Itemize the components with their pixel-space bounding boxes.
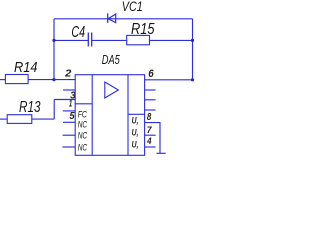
wire NC stub left 1	[63, 121, 75, 123]
resistor R15	[127, 35, 150, 44]
node pin2 junction	[52, 78, 55, 81]
diode VC1	[108, 13, 116, 22]
svg-text:C4: C4	[71, 24, 85, 41]
capacitor C4	[88, 33, 91, 47]
node R15 at right rail	[191, 39, 194, 42]
wire C4 branch left	[54, 39, 88, 41]
wire right rail	[192, 19, 194, 80]
wire top bus	[54, 18, 193, 20]
wire R13 to riser	[32, 118, 54, 120]
wire R15 to right rail	[150, 39, 193, 41]
svg-text:6: 6	[148, 68, 154, 80]
wire NC stub right 2	[145, 99, 156, 101]
svg-text:DA5: DA5	[102, 52, 121, 67]
svg-text:8: 8	[147, 112, 152, 123]
svg-text:VC1: VC1	[122, 0, 143, 14]
wire pin 7 stub	[145, 134, 156, 136]
node pin 6 at right rail	[191, 78, 194, 81]
resistor R13	[7, 115, 32, 124]
svg-text:2: 2	[64, 69, 72, 80]
op-amp triangle symbol	[105, 82, 119, 98]
svg-text:U,: U,	[132, 127, 139, 137]
svg-text:R13: R13	[19, 99, 41, 116]
op-amp U1 DA5 body	[75, 75, 144, 156]
wire to pin 1	[54, 99, 75, 101]
wire NC stub left 3	[62, 146, 75, 148]
node C4 branch at left rail	[52, 39, 55, 42]
wire pin 8	[145, 123, 160, 154]
wire NC stub right 1	[145, 89, 156, 91]
wire left rail	[53, 19, 55, 80]
wire pin 3 stub	[63, 89, 75, 91]
wire pin 6 to right rail	[145, 79, 193, 81]
resistor R14	[5, 75, 28, 84]
wire NC stub right 3	[145, 109, 156, 111]
svg-text:U,: U,	[132, 116, 139, 126]
ground bar	[157, 152, 166, 154]
wire R14 to node	[28, 79, 54, 81]
svg-text:R15: R15	[131, 21, 155, 38]
wire pin 4 stub	[145, 146, 156, 148]
wire input to R14	[0, 79, 5, 81]
wire input to R13	[0, 118, 7, 120]
svg-text:7: 7	[147, 125, 152, 136]
wire node to pin 2	[54, 79, 75, 81]
wire riser to pin 1	[53, 100, 55, 120]
wire NC stub left 2	[63, 134, 76, 136]
wire pin 5 stub	[63, 110, 75, 112]
svg-text:U,: U,	[132, 139, 139, 149]
svg-text:NC: NC	[78, 131, 88, 141]
svg-text:5: 5	[70, 111, 75, 122]
wire C4 to R15	[92, 39, 127, 41]
svg-text:NC: NC	[78, 120, 88, 130]
svg-text:4: 4	[146, 136, 152, 147]
svg-text:R14: R14	[14, 60, 38, 76]
svg-text:NC: NC	[78, 142, 88, 152]
